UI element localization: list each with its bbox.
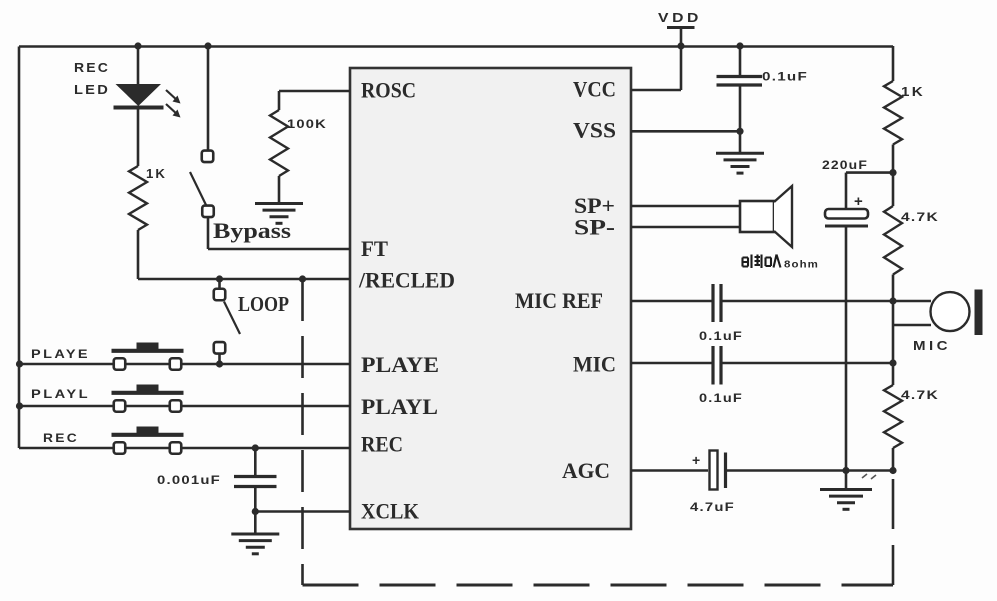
svg-text:PLAYL: PLAYL — [31, 387, 90, 401]
svg-text:220uF: 220uF — [822, 158, 868, 172]
svg-text:0.1uF: 0.1uF — [699, 391, 743, 405]
svg-text:REC: REC — [361, 432, 403, 457]
svg-text:SP-: SP- — [574, 215, 615, 240]
svg-text:+: + — [692, 452, 700, 468]
svg-text:Bypass: Bypass — [213, 218, 292, 243]
svg-text:MIC: MIC — [913, 338, 951, 353]
svg-text:XCLK: XCLK — [361, 499, 419, 524]
svg-text:0.1uF: 0.1uF — [762, 70, 808, 84]
svg-text:AGC: AGC — [562, 458, 610, 483]
svg-text:4.7K: 4.7K — [901, 388, 939, 402]
svg-text:4.7uF: 4.7uF — [690, 500, 735, 514]
svg-text:MIC: MIC — [573, 352, 616, 377]
svg-text:ROSC: ROSC — [361, 78, 416, 103]
svg-text:8ohm: 8ohm — [784, 259, 819, 271]
svg-text:100K: 100K — [287, 117, 327, 131]
svg-text:+: + — [854, 193, 863, 210]
svg-text:0.1uF: 0.1uF — [699, 329, 743, 343]
svg-text:LED: LED — [74, 82, 110, 97]
svg-text:MIC REF: MIC REF — [515, 288, 603, 313]
svg-text:PLAYL: PLAYL — [361, 394, 438, 419]
svg-text:1K: 1K — [146, 166, 167, 181]
svg-text:LOOP: LOOP — [238, 292, 289, 316]
svg-text:4.7K: 4.7K — [901, 210, 939, 224]
svg-text:/RECLED: /RECLED — [358, 268, 455, 293]
svg-text:REC: REC — [74, 60, 110, 75]
svg-text:0.001uF: 0.001uF — [157, 473, 221, 487]
svg-text:FT: FT — [361, 236, 388, 261]
svg-text:PLAYE: PLAYE — [31, 347, 90, 361]
svg-text:VSS: VSS — [573, 118, 616, 143]
svg-text:PLAYE: PLAYE — [361, 352, 439, 377]
svg-text:VDD: VDD — [658, 10, 702, 25]
svg-text:VCC: VCC — [573, 77, 616, 102]
svg-text:1K: 1K — [901, 84, 925, 99]
svg-text:REC: REC — [43, 431, 79, 445]
